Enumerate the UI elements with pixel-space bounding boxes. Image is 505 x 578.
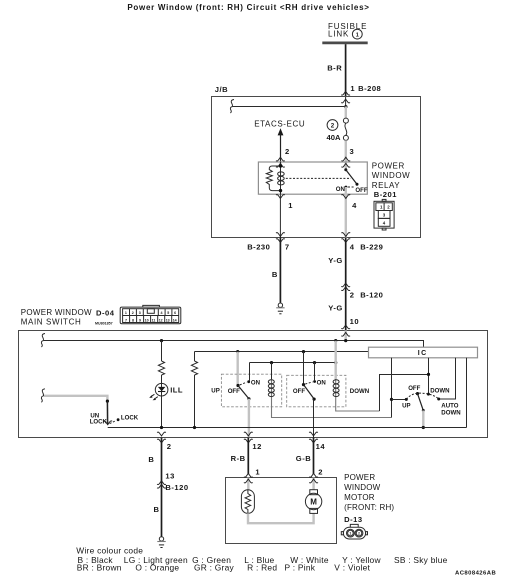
svg-text:2: 2 [132,311,134,315]
svg-text:2: 2 [167,442,172,451]
IC box [369,347,478,358]
svg-text:R : Red: R : Red [247,563,277,573]
connector icon B-201 [374,199,394,230]
node UP net [390,398,393,401]
dashed lever to LOCK [110,421,116,424]
resistor R2 [191,361,197,375]
svg-text:BR : Brown: BR : Brown [77,563,122,573]
wire feed inside J/B top [345,97,347,108]
motor box [226,478,337,544]
wire B-R from fusible link to J/B [345,44,347,96]
svg-text:G-B: G-B [296,454,311,463]
relay actuation dashed line [286,177,351,179]
chevrons B-230 exit [276,233,285,237]
squiggle lower bus [41,389,45,403]
lock contact marks [103,421,112,425]
lock switch lever [106,401,108,425]
gray wire left contact to pin 12 [248,399,250,437]
power window main switch label [21,308,92,327]
J/B box [212,97,421,238]
svg-text:14: 14 [173,318,177,322]
connector 13 B-120 chevrons [157,481,166,485]
svg-text:2: 2 [358,532,360,536]
fusible link label [328,22,367,38]
node bus1 coil feed [334,339,337,342]
auto switch pivot [416,392,419,395]
svg-text:10: 10 [145,318,149,322]
left switch lower contact [247,397,250,400]
svg-text:B: B [154,505,160,514]
bus1 squiggle [41,334,45,348]
connector icon D-13 [341,524,367,539]
svg-text:6: 6 [174,311,176,315]
chevrons pin 12 exit [244,432,253,436]
left dashed relay box [221,374,281,407]
chevrons pin 14 exit [309,432,318,436]
dashed ON to lever [348,186,355,188]
circled 2 [327,120,338,131]
svg-text:ETACS-ECU: ETACS-ECU [254,119,305,128]
svg-text:AUTO: AUTO [441,402,458,409]
relay coil loops [278,172,285,185]
wire B pin2 to ground [161,438,163,537]
svg-text:1: 1 [255,467,260,476]
ETACS-ECU arrow [278,128,284,135]
node bus3 end [334,361,337,364]
svg-text:J/B: J/B [215,85,228,94]
svg-text:P : Pink: P : Pink [285,563,316,573]
svg-text:8: 8 [132,318,134,322]
svg-text:OFF: OFF [408,385,420,392]
main switch box [19,331,488,438]
chevrons relay pin 3 [341,157,350,161]
gray wire lever to ground bus [422,411,424,428]
svg-text:Y-G: Y-G [328,256,343,265]
svg-text:DOWN: DOWN [430,388,449,395]
svg-text:OFF: OFF [355,187,367,194]
svg-text:Y-G: Y-G [328,303,343,312]
coil right [333,379,339,398]
right switch lower contact [313,398,316,401]
svg-text:4: 4 [161,311,163,315]
svg-text:B-229: B-229 [360,243,383,252]
relay resistor [266,166,280,191]
svg-text:B-120: B-120 [360,291,383,300]
svg-text:MU801857: MU801857 [95,322,113,326]
svg-text:13: 13 [166,318,170,322]
svg-text:2: 2 [331,123,335,130]
svg-text:7: 7 [285,243,290,252]
lock switch pivot [106,400,109,403]
chevrons at J/B top entry [341,91,350,95]
svg-text:V : Violet: V : Violet [334,563,370,573]
node bus3 right ON [313,361,316,364]
wire bus3 to left coil [271,363,273,380]
coil left [268,379,274,398]
gray wire pin1 to breaker [247,478,249,490]
wire bus3 to right ON contact [314,363,316,381]
svg-text:12: 12 [252,442,261,451]
node ground bus R2 [193,426,196,429]
resistor ILL [158,361,164,375]
wire R-B pin 12 [247,438,249,475]
relay coil branch wire [280,162,282,194]
left switch pivot [236,384,239,387]
chevrons relay pin 1 [276,195,285,199]
wire bus2 to right switch pivot [303,352,305,385]
auto switch DOWN contact [427,393,430,396]
ILL resistor branch wire [161,341,163,362]
svg-text:RELAY: RELAY [372,181,401,190]
power window relay box [258,162,367,194]
svg-text:B-201: B-201 [374,190,397,199]
ground [276,303,284,314]
svg-text:DOWN: DOWN [441,409,460,416]
right dashed relay box [287,375,346,407]
wire B to ground [279,238,281,303]
svg-text:MOTOR: MOTOR [344,493,375,502]
relay switch lever [346,170,357,185]
motor label [344,473,394,512]
motor M1 [305,490,321,514]
svg-text:D-04: D-04 [96,308,115,317]
bus2 wire [195,351,369,353]
chevrons motor pin 1 [244,473,253,477]
ground bus wire [108,427,467,429]
svg-text:40A: 40A [327,133,341,142]
fusible link bar [322,42,367,45]
wire to UP contact [392,399,407,401]
svg-text:2: 2 [285,147,290,156]
svg-text:B-120: B-120 [165,483,188,492]
connector B-120 chevrons [341,283,350,287]
gray feed wire junction to fuse [345,107,347,119]
gray wire bus2 to left switch pivot [236,352,238,386]
dashed contact arc [406,393,438,399]
junction node on main feed [344,105,347,108]
svg-text:11: 11 [152,318,156,322]
bus wire in J/B [233,106,346,108]
bus continuation squiggle [230,100,234,114]
svg-text:1: 1 [350,84,355,93]
auto switch UP contact [405,398,408,401]
auto switch lever [418,394,424,411]
node relay coil bottom [279,189,282,192]
svg-text:9: 9 [139,318,141,322]
svg-text:WINDOW: WINDOW [372,171,410,180]
wire Y-G down to main switch [345,238,347,331]
svg-text:SB : Sky blue: SB : Sky blue [394,555,448,565]
svg-text:OFF: OFF [228,388,240,395]
svg-text:2: 2 [350,291,355,300]
svg-text:DOWN: DOWN [350,388,369,395]
svg-text:GR : Gray: GR : Gray [194,563,235,573]
svg-text:5: 5 [167,311,169,315]
wire resistor to LED [161,375,163,428]
node bus3 left coil [270,361,273,364]
circuit breaker [241,490,254,514]
svg-text:4: 4 [350,243,355,252]
chevrons relay pin 2 [276,157,285,161]
svg-text:UP: UP [211,388,219,395]
wire right contact to pin 14 [313,399,315,437]
svg-text:O : Orange: O : Orange [135,563,179,573]
svg-text:7: 7 [125,318,127,322]
svg-text:OFF: OFF [293,388,305,395]
svg-text:WINDOW: WINDOW [344,483,381,492]
resistor2 branch top [194,352,196,362]
svg-text:1: 1 [349,532,351,536]
svg-text:AC808426AB: AC808426AB [455,570,496,576]
IC pin wire to AUTO DOWN [439,358,456,399]
svg-text:2: 2 [318,467,323,476]
gray wire relay ON contact to pin 4 [345,187,347,238]
chevrons relay pin 4 [341,195,350,199]
wire G-B pin 14 [313,438,315,475]
node DOWN net [427,373,430,376]
svg-text:POWER: POWER [372,162,405,171]
LOCK contact [117,418,120,421]
svg-text:POWER WINDOW: POWER WINDOW [21,308,92,317]
svg-text:POWER: POWER [344,473,375,482]
svg-text:ON: ON [251,379,260,386]
svg-text:1: 1 [288,201,293,210]
wire colour code legend [76,545,447,572]
chevrons motor pin 2 [309,473,318,477]
node lever on bus [422,426,425,429]
svg-text:M: M [310,498,317,507]
svg-text:LOCK: LOCK [90,418,108,425]
left coil bottom run [272,398,392,418]
IC pin wire to ground bus [466,358,468,428]
gray wire breaker to bottom run [248,513,314,523]
bus3 wire [250,362,336,364]
wire R2 to bottom bus [194,375,196,428]
right coil bottom run [336,398,380,411]
svg-text:Power Window (front: RH) Circu: Power Window (front: RH) Circuit <RH dri… [127,3,369,12]
svg-text:B: B [148,455,154,464]
ground 2 [157,537,165,548]
node bus2 left [236,350,239,353]
node relay coil top [279,164,282,167]
svg-text:B-R: B-R [327,64,342,73]
svg-text:B: B [272,270,278,279]
svg-text:IC: IC [418,350,428,357]
right switch lever [304,385,315,400]
right switch pivot [302,383,305,386]
svg-text:12: 12 [159,318,163,322]
svg-text:LOCK: LOCK [121,414,139,421]
svg-text:UP: UP [402,402,410,409]
wire ETACS to relay coil [280,134,282,165]
IC pin wire to DOWN contact [428,358,430,394]
svg-text:MAIN SWITCH: MAIN SWITCH [21,318,82,327]
fusible link circled 1 [352,29,362,39]
lower left gray bus [44,396,107,423]
svg-text:B-208: B-208 [358,84,381,93]
node bus1 ILL [160,339,163,342]
svg-text:(FRONT: RH): (FRONT: RH) [344,503,394,512]
svg-text:3: 3 [139,311,141,315]
svg-text:B-230: B-230 [247,243,270,252]
svg-text:1: 1 [125,311,127,315]
relay ON contact [345,186,348,189]
svg-text:LINK: LINK [328,30,349,39]
wire relay pin1 to J/B bottom [279,194,281,237]
gray pin10 stub [345,331,347,341]
dashed pivot to ON [240,382,247,385]
svg-text:10: 10 [350,317,359,326]
auto switch AUTO DOWN contact [437,398,440,401]
fuse 2 40A symbol [343,118,348,140]
svg-text:Wire colour code: Wire colour code [76,545,143,555]
left switch lever [238,386,249,399]
left switch ON contact [247,380,250,383]
node ground bus pin2 [160,426,163,429]
LED ILL [149,383,168,400]
right switch ON contact [313,380,316,383]
chevrons B-229 exit [341,233,350,237]
IC pin wire to UP net [391,358,393,418]
wire bus3 to left ON contact [249,363,251,381]
gray feed wire fuse to relay pivot [345,140,347,169]
gray wire pin2 to motor [312,478,314,490]
svg-text:ILL: ILL [170,386,183,395]
svg-text:ON: ON [317,379,326,386]
node bus1 pin10 [344,339,347,342]
gray wire bus1 to right coil [335,341,337,379]
svg-text:ON: ON [336,186,345,193]
svg-text:4: 4 [352,201,357,210]
dashed pivot to ON right [305,382,312,384]
svg-text:13: 13 [165,472,174,481]
bus1 wire [44,341,424,348]
node bus2 right [302,350,305,353]
svg-text:1: 1 [356,32,359,38]
svg-text:R-B: R-B [231,454,246,463]
connector icon D-04 [120,305,181,323]
riser to DOWN node [380,375,429,412]
chevrons pin 10 entry [341,325,350,329]
chevrons pin 2 exit [157,432,166,436]
svg-text:3: 3 [350,147,355,156]
relay label [372,162,410,190]
svg-text:14: 14 [316,442,326,451]
relay switch pivot [344,168,347,171]
svg-text:D-13: D-13 [344,515,362,524]
